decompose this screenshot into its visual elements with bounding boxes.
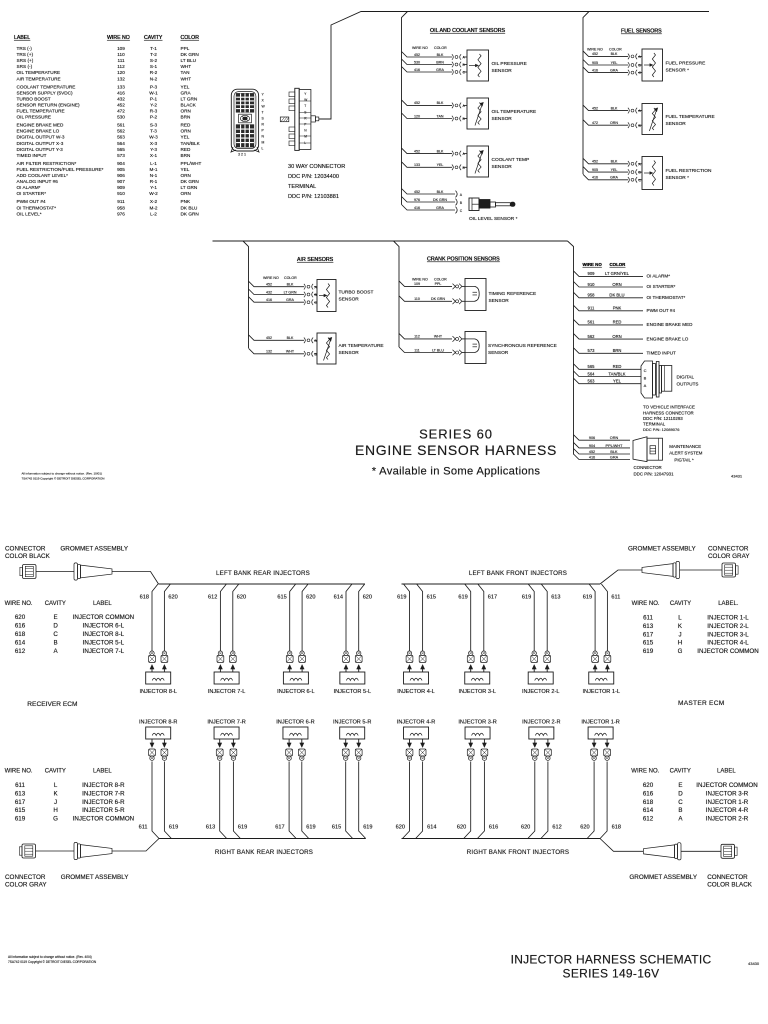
svg-text:OI ALARM*: OI ALARM* xyxy=(647,274,671,279)
svg-text:W: W xyxy=(304,98,307,102)
svg-text:112: 112 xyxy=(117,64,125,69)
INJECTOR 1-R xyxy=(581,720,619,740)
svg-text:MASTER ECM: MASTER ECM xyxy=(678,700,724,707)
INJECTOR 3-L wires 619/617 xyxy=(458,584,497,672)
svg-text:P-3: P-3 xyxy=(150,84,158,89)
svg-text:909: 909 xyxy=(117,185,125,190)
svg-text:AIR TEMPERATURE: AIR TEMPERATURE xyxy=(17,76,61,81)
svg-text:432: 432 xyxy=(117,96,125,101)
INJECTOR 8-R wires 611/619 xyxy=(139,739,179,839)
svg-text:P-2: P-2 xyxy=(150,115,158,120)
svg-text:C: C xyxy=(644,368,647,373)
row2 right wire table xyxy=(631,768,757,822)
svg-text:C: C xyxy=(678,799,683,806)
svg-text:617: 617 xyxy=(488,594,497,600)
svg-text:J: J xyxy=(54,799,57,806)
svg-text:SENSOR: SENSOR xyxy=(488,350,509,356)
svg-text:452: 452 xyxy=(117,102,125,107)
svg-text:TURBO BOOST: TURBO BOOST xyxy=(17,96,51,101)
svg-text:TAN/BLK: TAN/BLK xyxy=(181,141,201,146)
svg-text:INJECTOR 3-L: INJECTOR 3-L xyxy=(458,689,496,695)
timing reference sensor xyxy=(462,279,536,311)
svg-text:GROMMET ASSEMBLY: GROMMET ASSEMBLY xyxy=(629,874,697,881)
svg-text:W-2: W-2 xyxy=(149,191,158,196)
svg-text:INJECTOR 3-R: INJECTOR 3-R xyxy=(706,790,749,797)
svg-text:CAVITY: CAVITY xyxy=(670,601,691,607)
svg-text:INJECTOR 1-L: INJECTOR 1-L xyxy=(707,615,749,622)
svg-text:WIRE NO: WIRE NO xyxy=(412,278,428,282)
svg-text:RIGHT BANK REAR INJECTORS: RIGHT BANK REAR INJECTORS xyxy=(215,849,313,856)
grommet assembly / connector gray labels (top right) xyxy=(628,546,750,561)
svg-text:DIGITAL OUTPUT Y-3: DIGITAL OUTPUT Y-3 xyxy=(17,147,64,152)
svg-text:618: 618 xyxy=(612,825,621,831)
svg-text:INJECTOR 3-L: INJECTOR 3-L xyxy=(707,631,749,638)
maintenance alert wires 906/904/452/416 xyxy=(574,435,631,460)
INJECTOR 4-R xyxy=(397,720,435,740)
svg-text:W-1: W-1 xyxy=(149,90,158,95)
svg-text:GRA: GRA xyxy=(610,456,619,460)
INJECTOR 1-L wires 619/611 xyxy=(583,584,621,672)
svg-text:618: 618 xyxy=(140,594,149,600)
svg-text:INJECTOR HARNESS SCHEMATIC: INJECTOR HARNESS SCHEMATIC xyxy=(511,953,712,967)
svg-text:COLOR GRAY: COLOR GRAY xyxy=(708,553,750,560)
svg-text:S-2: S-2 xyxy=(150,58,158,63)
svg-text:OI THERMOSTAT*: OI THERMOSTAT* xyxy=(647,295,686,300)
INJECTOR 3-R wires 620/616 xyxy=(457,739,498,839)
receiver ECM connector icon (top left) xyxy=(23,565,37,579)
svg-text:611: 611 xyxy=(139,825,148,831)
svg-text:S-3: S-3 xyxy=(150,123,158,128)
svg-text:SENSOR *: SENSOR * xyxy=(666,68,690,74)
right column wire-no color header xyxy=(583,262,627,267)
INJECTOR 3-L xyxy=(458,672,496,695)
svg-text:INJECTOR COMMON: INJECTOR COMMON xyxy=(696,782,757,789)
INJECTOR 8-L wires 618/620 xyxy=(140,584,178,672)
svg-text:OUTPUTS: OUTPUTS xyxy=(677,382,699,387)
svg-text:OIL TEMPERATURE: OIL TEMPERATURE xyxy=(17,70,61,75)
left bank rear injectors bus xyxy=(159,583,366,585)
svg-text:TIMED INPUT: TIMED INPUT xyxy=(17,153,47,158)
svg-text:904: 904 xyxy=(589,444,595,448)
wire 958 DK BLU - OI THERMOSTAT* xyxy=(574,292,686,300)
svg-text:452: 452 xyxy=(414,53,420,57)
svg-text:L-2: L-2 xyxy=(150,211,157,216)
svg-text:619: 619 xyxy=(363,825,372,831)
30-way connector side view xyxy=(280,88,319,150)
svg-text:SENSOR RETURN (ENGINE): SENSOR RETURN (ENGINE) xyxy=(17,102,80,107)
svg-text:X-1: X-1 xyxy=(150,153,158,158)
svg-text:ENGINE BRAKE MED: ENGINE BRAKE MED xyxy=(647,322,694,327)
svg-text:INJECTOR 5-L: INJECTOR 5-L xyxy=(334,689,372,695)
INJECTOR 7-L wires 612/620 xyxy=(208,584,246,672)
svg-text:7SA742 0119 Copyright © DETRO: 7SA742 0119 Copyright © DETROIT DIESEL C… xyxy=(22,476,105,480)
svg-text:LT BLU: LT BLU xyxy=(432,348,444,352)
svg-text:M-2: M-2 xyxy=(149,205,157,210)
svg-text:INJECTOR 4-L: INJECTOR 4-L xyxy=(397,689,435,695)
svg-text:TAN: TAN xyxy=(181,70,190,75)
svg-text:SYNCHRONOUS REFERENCE: SYNCHRONOUS REFERENCE xyxy=(488,343,557,349)
svg-text:ORN: ORN xyxy=(181,173,191,178)
svg-text:530: 530 xyxy=(117,115,125,120)
svg-text:WIRE NO.: WIRE NO. xyxy=(632,601,660,607)
svg-text:615: 615 xyxy=(427,594,436,600)
svg-text:AIR TEMPERATURE: AIR TEMPERATURE xyxy=(339,343,384,349)
svg-text:HARNESS CONNECTOR: HARNESS CONNECTOR xyxy=(643,410,694,415)
fuel sensors branch xyxy=(583,12,589,175)
INJECTOR 1-L xyxy=(582,672,620,695)
svg-text:INJECTOR COMMON: INJECTOR COMMON xyxy=(73,816,134,823)
svg-text:DIGITAL OUTPUT X-3: DIGITAL OUTPUT X-3 xyxy=(17,141,64,146)
digital outputs connector xyxy=(641,361,698,398)
svg-text:620: 620 xyxy=(396,825,405,831)
svg-text:RED: RED xyxy=(613,364,622,369)
svg-text:615: 615 xyxy=(332,825,341,831)
oil temperature sensor xyxy=(463,98,536,129)
svg-text:613: 613 xyxy=(15,790,26,797)
svg-text:OI STARTER*: OI STARTER* xyxy=(17,191,47,196)
svg-text:906: 906 xyxy=(589,436,595,440)
connector color black label (top left) xyxy=(5,546,129,561)
svg-text:SRS (+): SRS (+) xyxy=(17,58,34,63)
grommet assembly icon (top left) xyxy=(74,563,78,580)
svg-text:PNK: PNK xyxy=(613,306,622,311)
coolant temp sensor xyxy=(463,146,529,177)
svg-text:110: 110 xyxy=(414,297,420,301)
svg-text:619: 619 xyxy=(522,594,531,600)
INJECTOR 7-R wires 613/619 xyxy=(206,739,247,839)
svg-text:615: 615 xyxy=(643,640,654,647)
svg-text:CONNECTOR: CONNECTOR xyxy=(634,465,662,470)
svg-text:INJECTOR 8-L: INJECTOR 8-L xyxy=(139,689,177,695)
svg-text:L: L xyxy=(304,141,306,145)
right bank front injectors bus xyxy=(402,838,601,840)
svg-text:ORN: ORN xyxy=(181,191,191,196)
svg-text:PIGTAIL *: PIGTAIL * xyxy=(674,457,694,462)
svg-text:P: P xyxy=(304,123,306,127)
svg-text:N-2: N-2 xyxy=(150,76,158,81)
svg-text:GRA: GRA xyxy=(286,298,294,302)
middle harness bus xyxy=(213,240,568,242)
svg-text:E: E xyxy=(54,614,58,621)
svg-text:INJECTOR 8-L: INJECTOR 8-L xyxy=(83,631,125,638)
svg-text:CRANK POSITION SENSORS: CRANK POSITION SENSORS xyxy=(427,257,500,263)
svg-text:614: 614 xyxy=(643,807,654,814)
svg-text:3 2 1: 3 2 1 xyxy=(238,153,246,157)
svg-text:GRA: GRA xyxy=(610,176,618,180)
air temperature sensor wires 452/132 xyxy=(249,297,318,357)
svg-text:FUEL TEMPERATURE: FUEL TEMPERATURE xyxy=(17,109,65,114)
svg-text:M: M xyxy=(304,135,307,139)
svg-text:INJECTOR 6-L: INJECTOR 6-L xyxy=(277,689,315,695)
svg-text:A: A xyxy=(644,383,647,388)
svg-text:109: 109 xyxy=(414,282,420,286)
svg-text:W-3: W-3 xyxy=(149,135,158,140)
svg-text:COLOR BLACK: COLOR BLACK xyxy=(707,882,753,889)
top sheet footnote xyxy=(22,472,105,481)
svg-text:PNK: PNK xyxy=(181,199,192,204)
svg-text:PPL/WHT: PPL/WHT xyxy=(181,161,202,166)
svg-text:TERMINAL: TERMINAL xyxy=(643,422,666,427)
svg-text:OI ALARM*: OI ALARM* xyxy=(17,185,41,190)
svg-text:612: 612 xyxy=(552,825,561,831)
svg-text:INJECTOR 4-L: INJECTOR 4-L xyxy=(707,640,749,647)
svg-text:FUEL RESTRICTION/FUEL PRESSURE: FUEL RESTRICTION/FUEL PRESSURE* xyxy=(17,167,104,172)
svg-text:RECEIVER ECM: RECEIVER ECM xyxy=(27,701,77,708)
svg-text:T-3: T-3 xyxy=(150,129,157,134)
svg-text:INJECTOR 4-R: INJECTOR 4-R xyxy=(397,720,435,726)
harness trunk wire from 30-way connector to sensor buses xyxy=(319,12,709,120)
svg-text:INJECTOR COMMON: INJECTOR COMMON xyxy=(73,614,134,621)
INJECTOR 4-L wires 619/615 xyxy=(397,584,436,672)
svg-text:616: 616 xyxy=(489,825,498,831)
svg-text:L: L xyxy=(678,615,682,622)
svg-text:DK GRN: DK GRN xyxy=(433,198,447,202)
svg-text:INJECTOR 2-R: INJECTOR 2-R xyxy=(706,816,749,823)
svg-text:562: 562 xyxy=(588,334,596,339)
svg-text:B: B xyxy=(678,807,682,814)
svg-text:LABEL: LABEL xyxy=(93,601,112,607)
svg-text:BLK: BLK xyxy=(610,450,618,454)
svg-text:530: 530 xyxy=(414,60,420,64)
svg-text:All information subject to cha: All information subject to change withou… xyxy=(22,472,103,476)
svg-text:INJECTOR 7-L: INJECTOR 7-L xyxy=(208,689,246,695)
svg-text:416: 416 xyxy=(592,68,598,72)
svg-text:DDC P/N: 12110293: DDC P/N: 12110293 xyxy=(643,416,683,421)
wire connector to grommet (bottom left) xyxy=(36,850,75,852)
svg-text:BLK: BLK xyxy=(287,283,294,287)
svg-text:619: 619 xyxy=(643,648,654,655)
svg-text:OIL AND COOLANT SENSORS: OIL AND COOLANT SENSORS xyxy=(430,28,506,34)
svg-text:INJECTOR 8-R: INJECTOR 8-R xyxy=(139,720,177,726)
svg-text:910: 910 xyxy=(117,191,125,196)
svg-text:RED: RED xyxy=(181,147,192,152)
svg-text:YEL: YEL xyxy=(611,61,618,65)
svg-text:BLK: BLK xyxy=(437,190,444,194)
svg-text:452: 452 xyxy=(592,52,598,56)
svg-text:B: B xyxy=(644,376,647,381)
svg-text:907: 907 xyxy=(117,179,125,184)
svg-text:620: 620 xyxy=(457,825,466,831)
svg-text:DIGITAL OUTPUT W-3: DIGITAL OUTPUT W-3 xyxy=(17,135,65,140)
svg-text:BRN: BRN xyxy=(181,115,191,120)
svg-text:COOLANT TEMP: COOLANT TEMP xyxy=(492,157,530,163)
receiver ECM connector icon (bottom left) xyxy=(22,844,36,858)
svg-text:INJECTOR COMMON: INJECTOR COMMON xyxy=(697,648,758,655)
svg-text:619: 619 xyxy=(169,825,178,831)
svg-text:563: 563 xyxy=(117,135,125,140)
svg-text:COLOR: COLOR xyxy=(434,46,447,50)
svg-text:OIL LEVEL*: OIL LEVEL* xyxy=(17,211,42,216)
svg-text:S: S xyxy=(304,110,306,114)
wire connector to grommet (top left) xyxy=(36,571,74,573)
svg-text:WIRE NO: WIRE NO xyxy=(412,46,428,50)
svg-text:INJECTOR 5-L: INJECTOR 5-L xyxy=(83,639,125,646)
svg-text:561: 561 xyxy=(588,320,596,325)
svg-text:564: 564 xyxy=(117,141,125,146)
svg-text:COLOR: COLOR xyxy=(609,48,622,52)
svg-text:611: 611 xyxy=(643,615,653,622)
svg-text:INJECTOR 2-L: INJECTOR 2-L xyxy=(707,623,749,630)
svg-text:416: 416 xyxy=(414,68,420,72)
svg-text:ENGINE SENSOR HARNESS: ENGINE SENSOR HARNESS xyxy=(355,442,557,458)
svg-text:619: 619 xyxy=(15,816,26,823)
svg-text:614: 614 xyxy=(334,594,343,600)
svg-text:620: 620 xyxy=(363,594,372,600)
series 60 title xyxy=(355,427,557,478)
grommet assembly icon (bottom right) xyxy=(678,843,682,860)
svg-text:619: 619 xyxy=(458,594,467,600)
svg-text:INJECTOR 1-R: INJECTOR 1-R xyxy=(581,720,619,726)
svg-text:COOLANT TEMPERATURE: COOLANT TEMPERATURE xyxy=(17,84,76,89)
air sensors branch xyxy=(243,241,249,297)
svg-text:BLACK: BLACK xyxy=(181,102,197,107)
svg-text:DK GRN: DK GRN xyxy=(181,179,199,184)
svg-text:CAVITY: CAVITY xyxy=(45,601,66,607)
svg-text:472: 472 xyxy=(117,109,125,114)
top-left wire table rows xyxy=(17,46,202,216)
svg-text:WHT: WHT xyxy=(286,350,295,354)
svg-text:ORN: ORN xyxy=(610,436,619,440)
svg-text:614: 614 xyxy=(427,825,436,831)
fuel restriction sensor wires 452/905/416 xyxy=(583,158,642,182)
svg-text:Y-2: Y-2 xyxy=(150,102,157,107)
svg-text:OIL TEMPERATURE: OIL TEMPERATURE xyxy=(492,109,537,115)
INJECTOR 6-L xyxy=(277,672,315,695)
svg-text:ORN: ORN xyxy=(612,334,621,339)
svg-text:X-3: X-3 xyxy=(150,141,158,146)
svg-text:D: D xyxy=(678,790,683,797)
INJECTOR 5-R xyxy=(333,720,371,740)
svg-text:* Available in Some Applicatio: * Available in Some Applications xyxy=(372,466,541,478)
svg-text:PPL/WHT: PPL/WHT xyxy=(606,444,624,448)
svg-text:613: 613 xyxy=(643,623,654,630)
INJECTOR 4-R wires 620/614 xyxy=(396,739,437,839)
row2 left wire table xyxy=(5,768,135,822)
svg-text:ORN: ORN xyxy=(612,282,621,287)
svg-text:BLK: BLK xyxy=(437,149,444,153)
timing reference sensor wires 109/110 xyxy=(399,281,462,304)
svg-text:GRA: GRA xyxy=(436,68,444,72)
30-way connector front view xyxy=(231,89,259,152)
svg-text:CONNECTOR: CONNECTOR xyxy=(5,546,46,553)
wire 562 ORN - ENGINE BRAKE LO xyxy=(574,334,689,342)
wire 910 ORN - OI STARTER* xyxy=(574,282,676,290)
svg-text:OI STARTER*: OI STARTER* xyxy=(647,284,676,289)
svg-text:ADD COOLANT LEVEL*: ADD COOLANT LEVEL* xyxy=(17,173,69,178)
svg-text:PPL: PPL xyxy=(181,46,190,51)
svg-text:GROMMET ASSEMBLY: GROMMET ASSEMBLY xyxy=(60,546,128,553)
svg-text:WIRE NO.: WIRE NO. xyxy=(5,601,33,607)
svg-text:43430: 43430 xyxy=(748,961,760,966)
svg-text:958: 958 xyxy=(117,205,125,210)
svg-text:612: 612 xyxy=(15,648,26,655)
svg-text:COLOR: COLOR xyxy=(610,262,627,267)
svg-text:M: M xyxy=(262,141,265,145)
svg-text:120: 120 xyxy=(414,114,420,118)
svg-text:X-2: X-2 xyxy=(150,199,158,204)
svg-text:111: 111 xyxy=(414,348,419,352)
svg-text:617: 617 xyxy=(275,825,284,831)
svg-text:620: 620 xyxy=(237,594,246,600)
INJECTOR 6-R xyxy=(276,720,314,740)
svg-text:H: H xyxy=(678,640,682,647)
maintenance pigtail connector xyxy=(633,437,703,463)
INJECTOR 4-L xyxy=(397,672,435,695)
svg-text:416: 416 xyxy=(589,456,595,460)
svg-text:ENGINE BRAKE LO: ENGINE BRAKE LO xyxy=(647,336,689,341)
INJECTOR 1-R wires 620/618 xyxy=(580,739,621,839)
svg-text:INJECTOR 2-R: INJECTOR 2-R xyxy=(522,720,560,726)
svg-text:GROMMET ASSEMBLY: GROMMET ASSEMBLY xyxy=(61,874,129,881)
synchronous reference sensor wires 112/111 xyxy=(399,333,462,355)
svg-text:619: 619 xyxy=(238,825,247,831)
svg-text:TRS (-): TRS (-) xyxy=(17,46,33,51)
svg-text:30 WAY CONNECTOR: 30 WAY CONNECTOR xyxy=(288,164,345,170)
svg-text:909: 909 xyxy=(588,271,596,276)
svg-text:CAVITY: CAVITY xyxy=(670,768,691,774)
svg-text:SRS (-): SRS (-) xyxy=(17,64,33,69)
svg-text:620: 620 xyxy=(306,594,315,600)
svg-text:LEFT BANK REAR INJECTORS: LEFT BANK REAR INJECTORS xyxy=(216,570,310,577)
svg-text:109: 109 xyxy=(117,46,125,51)
svg-text:976: 976 xyxy=(414,198,420,202)
svg-text:M-1: M-1 xyxy=(149,167,157,172)
svg-text:TIMING REFERENCE: TIMING REFERENCE xyxy=(489,291,537,297)
svg-text:416: 416 xyxy=(266,298,272,302)
svg-text:472: 472 xyxy=(592,121,598,125)
svg-text:T: T xyxy=(304,104,306,108)
svg-text:618: 618 xyxy=(15,631,26,638)
svg-text:ORN: ORN xyxy=(181,129,191,134)
svg-text:452: 452 xyxy=(266,336,272,340)
INJECTOR 2-R xyxy=(522,720,560,740)
svg-text:C: C xyxy=(53,631,58,638)
svg-text:INJECTOR 1-R: INJECTOR 1-R xyxy=(706,799,749,806)
svg-text:DDC P/N: 12034400: DDC P/N: 12034400 xyxy=(288,174,339,180)
turbo boost sensor xyxy=(314,280,373,312)
svg-text:ANALOG INPUT #6: ANALOG INPUT #6 xyxy=(17,179,59,184)
svg-text:L-1: L-1 xyxy=(150,161,157,166)
svg-text:CAVITY: CAVITY xyxy=(45,768,66,774)
left bank front injectors bus xyxy=(402,583,601,585)
svg-text:YEL: YEL xyxy=(437,163,444,167)
svg-text:INJECTOR 6-R: INJECTOR 6-R xyxy=(82,799,125,806)
svg-text:SENSOR: SENSOR xyxy=(492,164,513,170)
svg-text:133: 133 xyxy=(117,84,125,89)
INJECTOR 3-R xyxy=(458,720,496,740)
svg-text:FUEL RESTRICTION: FUEL RESTRICTION xyxy=(666,168,712,174)
svg-text:BLK: BLK xyxy=(611,160,618,164)
svg-text:LABEL: LABEL xyxy=(14,35,30,41)
svg-text:INJECTOR 8-R: INJECTOR 8-R xyxy=(82,782,125,789)
svg-text:YEL: YEL xyxy=(181,167,190,172)
svg-text:L: L xyxy=(54,782,58,789)
svg-text:452: 452 xyxy=(414,101,420,105)
svg-text:SENSOR SUPPLY (5VDC): SENSOR SUPPLY (5VDC) xyxy=(17,90,74,95)
svg-text:FUEL PRESSURE: FUEL PRESSURE xyxy=(666,61,706,67)
svg-text:906: 906 xyxy=(117,173,125,178)
wire grommet to connector (top right) xyxy=(680,569,723,571)
fuel pressure sensor wires 452/905/416 xyxy=(583,51,642,76)
svg-text:620: 620 xyxy=(168,594,177,600)
30-way connector front pin letters xyxy=(238,93,266,157)
svg-text:YEL: YEL xyxy=(613,379,622,384)
svg-text:452: 452 xyxy=(592,106,598,110)
svg-text:G: G xyxy=(53,816,58,823)
INJECTOR 7-L xyxy=(208,672,246,695)
svg-text:INJECTOR 6-R: INJECTOR 6-R xyxy=(276,720,314,726)
svg-text:AIR FILTER RESTRICTION*: AIR FILTER RESTRICTION* xyxy=(17,161,77,166)
